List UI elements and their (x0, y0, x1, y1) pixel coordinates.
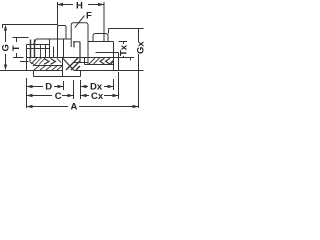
svg-text:Cx: Cx (91, 91, 104, 102)
svg-text:G: G (1, 44, 12, 51)
svg-text:F: F (86, 10, 92, 21)
svg-text:Gx: Gx (136, 41, 145, 54)
svg-text:Tx: Tx (119, 44, 130, 56)
svg-text:C: C (55, 91, 62, 102)
svg-text:A: A (71, 101, 78, 111)
svg-text:H: H (76, 1, 83, 12)
svg-text:T: T (11, 45, 22, 51)
svg-text:D: D (45, 81, 52, 92)
